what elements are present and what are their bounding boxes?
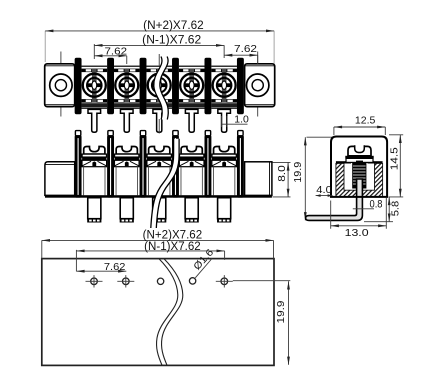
- svg-text:13.0: 13.0: [345, 227, 369, 239]
- svg-text:5.8: 5.8: [389, 201, 401, 217]
- svg-text:7.62: 7.62: [105, 45, 128, 57]
- svg-text:(N+2)X7.62: (N+2)X7.62: [143, 20, 204, 32]
- svg-text:1.0: 1.0: [234, 114, 249, 125]
- svg-text:19.9: 19.9: [275, 300, 287, 323]
- svg-text:7.62: 7.62: [104, 261, 126, 273]
- svg-text:0.8: 0.8: [370, 198, 383, 210]
- svg-text:14.5: 14.5: [388, 147, 400, 170]
- svg-text:(N-1)X7.62: (N-1)X7.62: [144, 241, 201, 253]
- svg-text:7.62: 7.62: [234, 43, 257, 55]
- svg-text:19.9: 19.9: [292, 162, 304, 183]
- svg-text:(N-1)X7.62: (N-1)X7.62: [142, 35, 201, 47]
- svg-text:12.5: 12.5: [355, 115, 376, 127]
- svg-text:(N+2)X7.62: (N+2)X7.62: [143, 230, 203, 242]
- svg-text:8.0: 8.0: [276, 165, 288, 182]
- svg-text:4.0: 4.0: [316, 184, 332, 196]
